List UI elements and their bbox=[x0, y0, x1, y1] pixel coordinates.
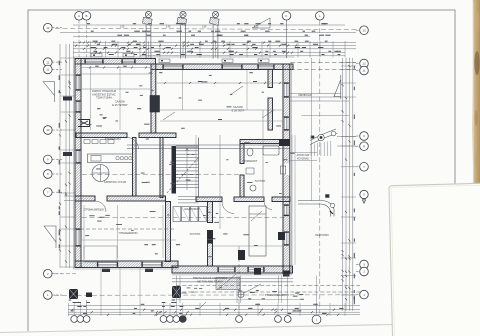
svg-text:ΤΖΑΚΙ ΓΩΝΙΑ: ΤΖΑΚΙ ΓΩΝΙΑ bbox=[96, 96, 112, 100]
overlapping sheet bbox=[389, 183, 480, 336]
top grid bubbles bbox=[75, 12, 324, 21]
east wall window 1 bbox=[284, 83, 289, 97]
east outside leaders bbox=[291, 135, 318, 265]
south wall right window 1 bbox=[218, 267, 235, 272]
beam lines bbox=[127, 145, 290, 149]
east wall window 4 bbox=[284, 232, 289, 245]
west wall window 4 bbox=[76, 229, 81, 246]
interior wall bedroom top B bbox=[107, 196, 166, 201]
svg-text:ΔΙΑΔΡΟΜΟΣ: ΔΙΑΔΡΟΜΟΣ bbox=[184, 207, 200, 211]
east porch lines bbox=[291, 94, 342, 98]
svg-text:ΚΑΘΙΣΤΙΚΟ 17.5 Μ2: ΚΑΘΙΣΤΙΚΟ 17.5 Μ2 bbox=[104, 181, 127, 184]
east wall door opening bbox=[284, 164, 290, 176]
svg-text:ΜΕ ΤΗΝ ΑΝΩ ΠΛΑΚΑ: ΜΕ ΤΗΝ ΑΝΩ ΠΛΑΚΑ bbox=[197, 280, 223, 284]
left grid bubbles bbox=[44, 23, 63, 299]
interior wall living divider bbox=[151, 64, 156, 133]
svg-text:12: 12 bbox=[46, 60, 50, 64]
interior wall bedroom divider b bbox=[208, 231, 213, 266]
south wall right window 2 bbox=[248, 267, 264, 272]
window dimension boxes north bbox=[91, 54, 269, 63]
svg-text:A: A bbox=[78, 14, 80, 18]
south wall left bbox=[75, 261, 178, 268]
interior wall pantry bbox=[133, 138, 137, 197]
interior wall corridor C bbox=[272, 197, 290, 202]
annotation blobs bbox=[85, 73, 294, 258]
west wall window 3 bbox=[76, 150, 81, 163]
pergola posts bbox=[143, 11, 220, 58]
svg-text:Ε 25 ΤΕΤΡΑΓ: Ε 25 ΤΕΤΡΑΓ bbox=[112, 103, 128, 107]
east leader rows bbox=[291, 58, 357, 201]
svg-text:1.80: 1.80 bbox=[202, 26, 207, 28]
west wall bbox=[75, 59, 81, 268]
svg-text:1.05: 1.05 bbox=[120, 26, 125, 28]
south wall left window 2 bbox=[142, 262, 162, 267]
bathroom fixtures bbox=[246, 146, 279, 191]
svg-text:10: 10 bbox=[46, 128, 50, 132]
north wall upper window 1 bbox=[85, 59, 103, 63]
interior wall bath top bbox=[240, 140, 283, 144]
interior wall bedroom right bbox=[166, 202, 171, 262]
interior wall kitchen divider A bbox=[76, 133, 127, 138]
east wall door leaf bbox=[281, 166, 286, 174]
svg-text:ΚΛΙΜΑΚΟΣΤ: ΚΛΙΜΑΚΟΣΤ bbox=[243, 159, 258, 163]
svg-text:ΡΕΘΥΜΝΟ: ΡΕΘΥΜΝΟ bbox=[315, 233, 328, 237]
west stub lines bbox=[64, 196, 75, 201]
bottom grid bubbles bbox=[71, 315, 321, 324]
left dimension band bbox=[59, 44, 75, 268]
west wall window 2 bbox=[76, 101, 81, 112]
interior wall corridor B bbox=[234, 197, 264, 202]
svg-text:ΣΑΛΟΝΙ: ΣΑΛΟΝΙ bbox=[233, 105, 243, 109]
bedroom chains bbox=[80, 181, 175, 258]
interior wall bath vert bbox=[240, 144, 244, 164]
diagonal leaders bbox=[163, 86, 274, 120]
duct block bbox=[150, 96, 160, 113]
west wall window 1 bbox=[76, 75, 81, 90]
right grid bubbles bbox=[356, 26, 368, 299]
svg-text:ΣΤΑΘΜΗ ΕΔΑΦΟΥΣ: ΣΤΑΘΜΗ ΕΔΑΦΟΥΣ bbox=[265, 293, 289, 297]
interior wall upper right divider B bbox=[268, 98, 273, 130]
north wall lower window 2 bbox=[222, 65, 242, 69]
north wall lower bbox=[151, 64, 293, 70]
grid axes bbox=[54, 21, 357, 317]
room labels bbox=[92, 89, 329, 297]
south wall right bbox=[172, 266, 293, 273]
north wall upper bbox=[75, 59, 156, 65]
svg-text:Ε 28 ΤΕΤΡ: Ε 28 ΤΕΤΡ bbox=[232, 109, 245, 113]
bottom dimension band bbox=[68, 300, 360, 317]
svg-text:B: B bbox=[86, 14, 88, 18]
south porch and leaders bbox=[172, 276, 360, 314]
south wall left window 1 bbox=[98, 262, 118, 267]
north wall lower window 1 bbox=[163, 65, 183, 69]
svg-text:K: K bbox=[286, 14, 288, 18]
svg-text:ΣΤΡΩΜΑ ΔΑΠΕΔΟΥ: ΣΤΡΩΜΑ ΔΑΠΕΔΟΥ bbox=[84, 209, 105, 212]
plaster offset lines bbox=[74, 57, 295, 275]
entrance ramp band bbox=[310, 129, 356, 156]
leader marks bbox=[199, 211, 262, 309]
svg-text:ΠΡΩΤΗ ΔΟΚΟΣ ΑΝΩ ΠΛΑΚΑ: ΠΡΩΤΗ ΔΟΚΟΣ ΑΝΩ ΠΛΑΚΑ bbox=[193, 276, 227, 280]
east wall window 2 bbox=[284, 117, 289, 130]
scanner edge tan strip bbox=[472, 0, 480, 192]
closet row bbox=[173, 207, 207, 222]
svg-text:11: 11 bbox=[362, 69, 365, 73]
interior dimension lines bbox=[80, 66, 283, 303]
interior wall bedroom top A bbox=[75, 196, 95, 201]
staircase bbox=[167, 138, 199, 203]
sheet bottom edge bbox=[0, 325, 392, 333]
svg-text:ΚΟΥΖΙΝΑΣ: ΚΟΥΖΙΝΑΣ bbox=[297, 157, 309, 160]
north wall lower window 3 bbox=[258, 65, 274, 69]
interior wall bath vert b bbox=[240, 175, 244, 197]
right dimension band bbox=[341, 58, 356, 311]
west sill marks bbox=[63, 97, 153, 273]
svg-text:2.40: 2.40 bbox=[166, 26, 171, 28]
east wall bbox=[283, 64, 290, 274]
north wall upper window 2 bbox=[122, 59, 135, 63]
interior wall bedroom divider a bbox=[208, 202, 213, 223]
svg-text:11: 11 bbox=[46, 68, 49, 72]
door swings bbox=[95, 138, 272, 214]
top dimension ticks and figures bbox=[75, 23, 341, 55]
kitchen counter and table bbox=[84, 140, 133, 182]
svg-text:ΠΕΡΙΒΟΛΟΣ: ΠΕΡΙΒΟΛΟΣ bbox=[298, 95, 312, 97]
svg-text:13: 13 bbox=[46, 26, 50, 30]
east wall window 3 bbox=[284, 205, 289, 216]
svg-text:ΣΟΔ: ΣΟΔ bbox=[181, 291, 187, 295]
fireplace bbox=[78, 120, 90, 127]
lower ramp band bbox=[298, 195, 335, 217]
interior wall upper right divider A bbox=[268, 70, 273, 88]
porch step block bbox=[216, 278, 240, 290]
living dimension chains bbox=[157, 70, 283, 121]
svg-text:ΥΠΝΟΔΩΜΑΤΙΟ: ΥΠΝΟΔΩΜΑΤΙΟ bbox=[118, 231, 137, 235]
column blocks bbox=[69, 139, 290, 299]
svg-text:12: 12 bbox=[362, 62, 366, 66]
interior wall kitchen divider B bbox=[139, 133, 176, 138]
svg-text:ΛΟΥΤΡΟ: ΛΟΥΤΡΟ bbox=[190, 232, 201, 236]
interior wall corridor A bbox=[196, 197, 222, 202]
svg-text:ΤΡΑΠΕΖΑΡΙΑ: ΤΡΑΠΕΖΑΡΙΑ bbox=[105, 137, 121, 141]
svg-text:ΛΟΥΤΡΟ: ΛΟΥΤΡΟ bbox=[255, 179, 266, 183]
top dimension band bbox=[60, 25, 356, 58]
inner face dimension row bbox=[82, 66, 150, 69]
bed and furniture bbox=[84, 206, 266, 262]
svg-text:13: 13 bbox=[362, 28, 366, 32]
section marks bbox=[43, 18, 341, 248]
interior wall stair left bbox=[160, 138, 163, 198]
